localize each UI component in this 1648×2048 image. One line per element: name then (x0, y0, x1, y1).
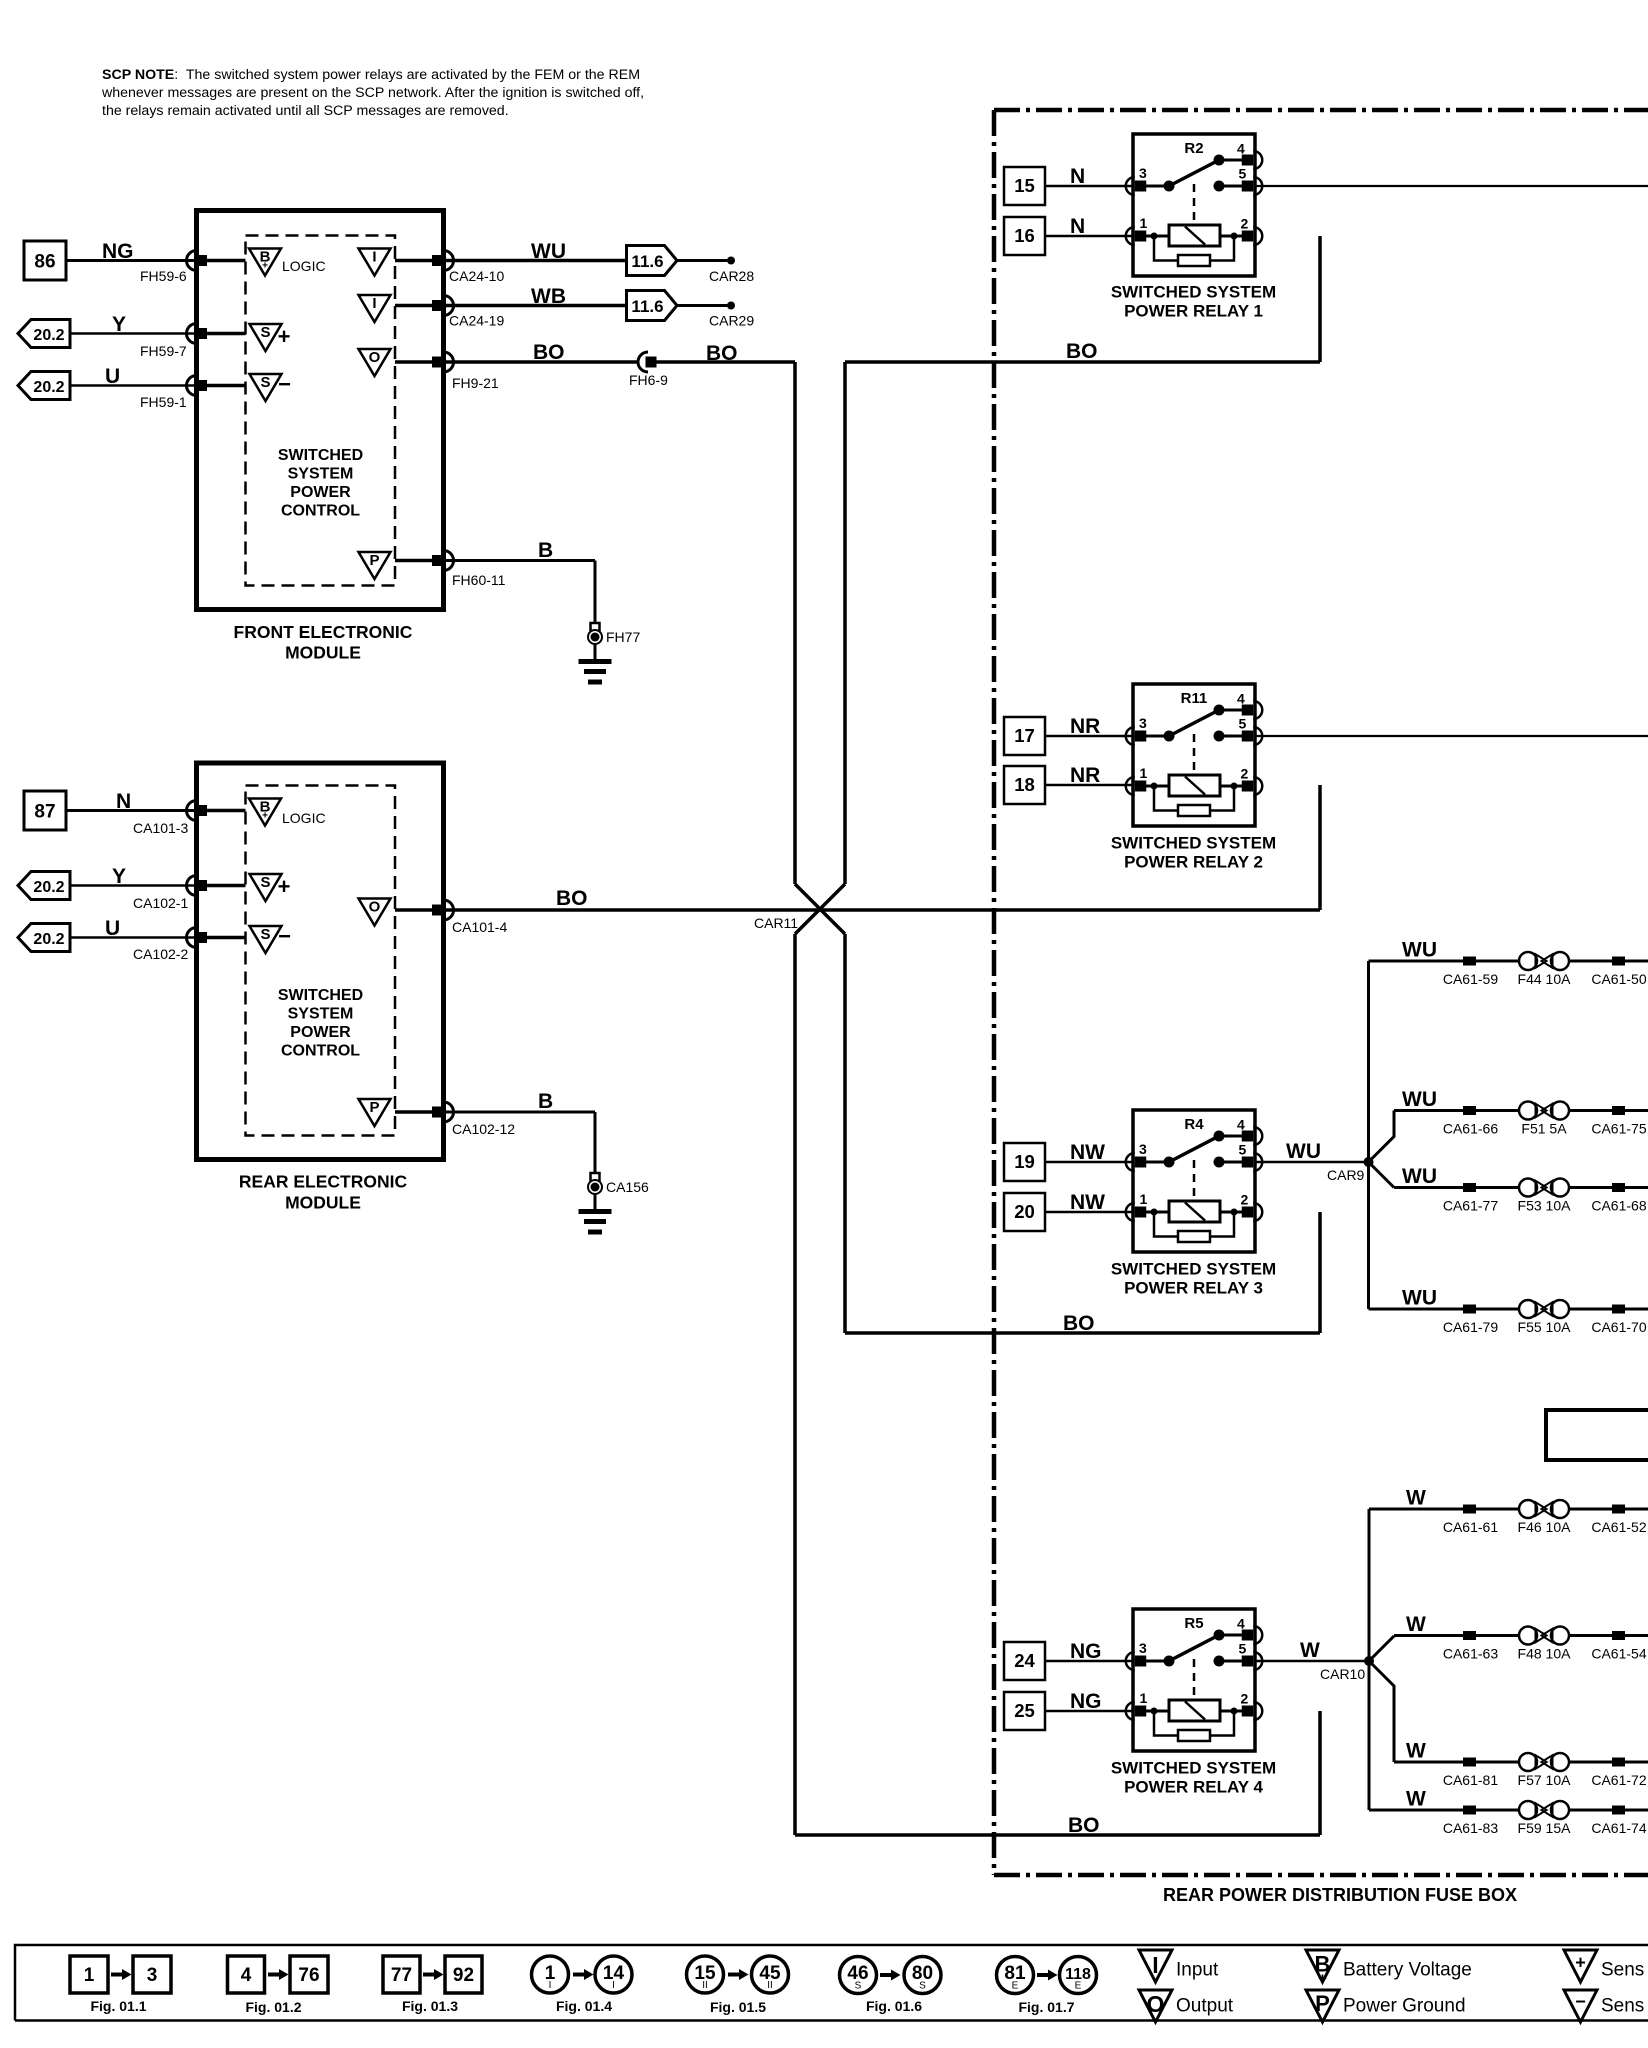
svg-text:CA61-54: CA61-54 (1591, 1646, 1646, 1662)
svg-text:N: N (116, 790, 131, 813)
svg-text:NR: NR (1070, 764, 1100, 787)
svg-text:P: P (369, 1099, 379, 1116)
wire NW 19 to relay3 pin3 (1045, 1141, 1133, 1164)
svg-text:BO: BO (706, 342, 738, 365)
svg-text:W: W (1406, 1613, 1426, 1636)
connector arrow 20.2 (U, REM) (18, 924, 70, 952)
wire BO from FH9-21 (444, 341, 639, 364)
svg-text:P: P (369, 552, 379, 569)
svg-text:NW: NW (1070, 1191, 1105, 1214)
svg-text:NG: NG (1070, 1690, 1102, 1713)
svg-text:CA61-70: CA61-70 (1591, 1319, 1646, 1335)
svg-text:POWER RELAY 2: POWER RELAY 2 (1124, 853, 1263, 872)
svg-text:16: 16 (1014, 225, 1035, 246)
svg-text:BO: BO (1063, 1312, 1095, 1335)
relay R4 SWITCHED SYSTEM POWER RELAY 3 (1111, 1110, 1276, 1298)
symbol sensor+ S triangle (REM) (250, 874, 291, 901)
svg-text:the relays remain activated un: the relays remain activated until all SC… (102, 103, 509, 119)
connector 11.6 (WB) (627, 291, 678, 321)
pin CA102-12 (REM right) (432, 1102, 515, 1137)
svg-text:CA102-12: CA102-12 (452, 1121, 515, 1137)
svg-text:F44 10A: F44 10A (1518, 971, 1572, 987)
svg-text:F46 10A: F46 10A (1518, 1519, 1572, 1535)
svg-text:REAR ELECTRONIC: REAR ELECTRONIC (239, 1172, 408, 1192)
svg-text:CONTROL: CONTROL (281, 503, 360, 520)
fuse F55 10A row (WU CA61-79/CA61-70) (1369, 1287, 1648, 1336)
fuse F53 10A row (WU CA61-77/CA61-68) (1394, 1165, 1648, 1214)
connector box 87 (24, 791, 66, 830)
pin FH59-6 (FEM left) (140, 251, 207, 285)
fuse F44 10A row (WU CA61-59/CA61-50) (1369, 939, 1648, 988)
svg-text:Fig. 01.7: Fig. 01.7 (1018, 1999, 1074, 2015)
legend item Fig. 01.7 (circles 81 to 118) (997, 1957, 1097, 2016)
svg-text:NR: NR (1070, 715, 1100, 738)
svg-text:II: II (702, 1980, 708, 1991)
connector arrow 20.2 (Y, REM) (18, 872, 70, 900)
svg-text:WU: WU (1402, 1088, 1437, 1111)
svg-text:Fig. 01.1: Fig. 01.1 (90, 1998, 146, 2014)
svg-text:+: + (262, 811, 268, 822)
svg-text:LOGIC: LOGIC (282, 258, 326, 274)
wire relay3 pin2 drop (1318, 1212, 1322, 1333)
wire WU from CA24-10 (444, 240, 628, 263)
pin CA24-10 (FEM right) (432, 251, 504, 285)
svg-text:WB: WB (531, 285, 566, 308)
fuse F48 10A row (W CA61-63/CA61-54) (1394, 1613, 1648, 1662)
legend symbol Battery Voltage (1306, 1950, 1472, 1987)
svg-text:CA101-3: CA101-3 (133, 820, 188, 836)
svg-text:CA61-79: CA61-79 (1443, 1319, 1498, 1335)
svg-text:Input: Input (1176, 1960, 1219, 1981)
svg-text:CA24-19: CA24-19 (449, 313, 504, 329)
symbol power-ground P triangle (FEM) (359, 552, 391, 579)
module U2 REAR ELECTRONIC MODULE (197, 763, 444, 1213)
svg-text:O: O (1147, 1991, 1165, 2017)
wire B from CA102-12 to ground (444, 1090, 596, 1173)
svg-text:1: 1 (84, 1965, 95, 1986)
node CAR29 (709, 302, 754, 329)
svg-text:+: + (262, 261, 268, 272)
svg-text:CA156: CA156 (606, 1179, 649, 1195)
wire BO vertical down to relay 4 feed (795, 934, 1320, 1837)
wire WU relay3 pin5 to CAR9 (1255, 1140, 1369, 1163)
svg-text:I: I (549, 1980, 552, 1991)
wire relay1 pin5 output to page edge (1255, 185, 1648, 187)
wire to CAR28 (677, 259, 731, 262)
legend item Fig. 01.5 (circles 15 to 45) (687, 1956, 789, 2015)
svg-text:FH59-1: FH59-1 (140, 394, 187, 410)
svg-text:SWITCHED SYSTEM: SWITCHED SYSTEM (1111, 1260, 1276, 1279)
svg-text:CA61-63: CA61-63 (1443, 1646, 1498, 1662)
svg-text:POWER RELAY 4: POWER RELAY 4 (1124, 1778, 1263, 1797)
wire NR 18 to relay2 pin1 (1045, 764, 1133, 787)
svg-text:−: − (1575, 1992, 1586, 2012)
legend symbol Power Ground (1306, 1990, 1466, 2022)
pin FH9-21 (FEM right) (432, 352, 499, 391)
pin CA24-19 (FEM right) (432, 296, 504, 329)
connector box 86 (24, 241, 66, 280)
svg-text:SWITCHED: SWITCHED (278, 447, 363, 464)
legend item Fig. 01.1 (squares 1 to 3) (70, 1956, 171, 2014)
svg-text:18: 18 (1014, 774, 1035, 795)
svg-text:−: − (278, 924, 291, 949)
node CAR11 crossover (754, 884, 845, 934)
svg-text:U: U (105, 365, 120, 388)
wire WB from CA24-19 (444, 285, 628, 308)
svg-text:FH59-7: FH59-7 (140, 343, 187, 359)
svg-text:CA61-81: CA61-81 (1443, 1772, 1498, 1788)
wire B from FH60-11 to ground (444, 539, 596, 623)
pin CA101-3 (REM left) (133, 801, 207, 837)
svg-text:I: I (372, 249, 376, 266)
svg-text:F53 10A: F53 10A (1518, 1198, 1572, 1214)
svg-text:CONTROL: CONTROL (281, 1043, 360, 1060)
svg-text:SWITCHED SYSTEM: SWITCHED SYSTEM (1111, 834, 1276, 853)
wire BO vertical from relay1 corner (843, 362, 847, 884)
svg-text:Y: Y (112, 865, 126, 888)
wire Y to REM (70, 865, 197, 888)
wire NG 24 to relay4 pin3 (1045, 1640, 1133, 1663)
svg-text:O: O (369, 899, 381, 916)
svg-text:SWITCHED SYSTEM: SWITCHED SYSTEM (1111, 1759, 1276, 1778)
relay R5 SWITCHED SYSTEM POWER RELAY 4 (1111, 1609, 1276, 1797)
connector box 16 (1004, 217, 1045, 255)
svg-text:CAR28: CAR28 (709, 268, 754, 284)
svg-text:S: S (260, 324, 270, 341)
svg-text:I: I (1152, 1952, 1158, 1978)
symbol battery-voltage B triangle (FEM) (249, 249, 326, 276)
svg-text:CA61-50: CA61-50 (1591, 971, 1646, 987)
svg-text:R4: R4 (1184, 1116, 1204, 1133)
svg-text:S: S (855, 1981, 862, 1992)
svg-text:Fig. 01.2: Fig. 01.2 (245, 1999, 301, 2015)
legend symbol Input (1139, 1950, 1219, 1982)
wire to CAR29 (677, 304, 731, 307)
svg-text:20: 20 (1014, 1201, 1035, 1222)
svg-text:WU: WU (1286, 1140, 1321, 1163)
svg-text:NW: NW (1070, 1141, 1105, 1164)
wire BO relay1 feed horizontal (845, 340, 1320, 363)
svg-text:CA61-74: CA61-74 (1591, 1820, 1646, 1836)
wire BO vertical from FEM corner (793, 362, 797, 884)
svg-text:Fig. 01.3: Fig. 01.3 (402, 1998, 458, 2014)
svg-text:S: S (260, 874, 270, 891)
symbol output O triangle (FEM) (359, 349, 391, 376)
svg-text:19: 19 (1014, 1151, 1035, 1172)
svg-text:LOGIC: LOGIC (282, 810, 326, 826)
wire BO from FH6-9 to corner (657, 342, 796, 365)
svg-text:N: N (1070, 165, 1085, 188)
svg-text:CA61-61: CA61-61 (1443, 1519, 1498, 1535)
svg-text:BO: BO (533, 341, 565, 364)
svg-text:CA61-77: CA61-77 (1443, 1198, 1498, 1214)
symbol output O triangle (REM) (359, 899, 391, 926)
wire NR 17 to relay2 pin3 (1045, 715, 1133, 738)
legend symbol Output (1139, 1990, 1234, 2022)
connector box 17 (1004, 717, 1045, 755)
svg-text:87: 87 (34, 802, 55, 823)
legend panel (15, 1945, 1648, 2021)
svg-text:CA61-83: CA61-83 (1443, 1820, 1498, 1836)
module U1 FRONT ELECTRONIC MODULE (197, 211, 444, 663)
svg-text:POWER RELAY 3: POWER RELAY 3 (1124, 1279, 1263, 1298)
svg-text:CA101-4: CA101-4 (452, 919, 507, 935)
wire N from 87 to REM (66, 790, 197, 813)
svg-text:CAR10: CAR10 (1320, 1666, 1365, 1682)
SCP note text (101, 67, 644, 119)
svg-text:SWITCHED: SWITCHED (278, 987, 363, 1004)
svg-text:CA61-68: CA61-68 (1591, 1198, 1646, 1214)
legend symbol Sensor - (1564, 1990, 1644, 2022)
symbol input I triangle 1 (FEM) (359, 249, 391, 276)
svg-text:FH6-9: FH6-9 (629, 372, 668, 388)
svg-text:P: P (1315, 1991, 1330, 2016)
svg-text:B: B (538, 1090, 553, 1113)
svg-text:Fig. 01.4: Fig. 01.4 (556, 1998, 612, 2014)
symbol sensor- S triangle (REM) (250, 924, 291, 954)
svg-text:3: 3 (147, 1965, 158, 1986)
svg-text:S: S (260, 374, 270, 391)
symbol sensor+ S triangle (FEM) (250, 324, 291, 351)
svg-text:N: N (1070, 215, 1085, 238)
svg-text:Fig. 01.5: Fig. 01.5 (710, 1999, 766, 2015)
connector arrow 20.2 (Y, FEM) (18, 320, 70, 348)
relay R2 SWITCHED SYSTEM POWER RELAY 1 (1111, 134, 1276, 321)
svg-text:FH77: FH77 (606, 629, 640, 645)
svg-text:CA24-10: CA24-10 (449, 268, 504, 284)
svg-text:FH59-6: FH59-6 (140, 268, 187, 284)
svg-text:NG: NG (102, 240, 134, 263)
wire Y to FEM (70, 313, 197, 336)
connector box 19 (1004, 1143, 1045, 1181)
svg-text:77: 77 (391, 1965, 412, 1986)
wire stubs REM pins to logic box (207, 811, 434, 1113)
svg-text:WU: WU (1402, 1287, 1437, 1310)
svg-text:R5: R5 (1184, 1615, 1203, 1632)
svg-text:CAR9: CAR9 (1327, 1167, 1365, 1183)
svg-text:S: S (919, 1981, 926, 1992)
fuse F46 10A row (W CA61-61/CA61-52) (1369, 1487, 1648, 1536)
fuse F57 10A row (W CA61-81/CA61-72) (1394, 1740, 1648, 1789)
svg-text:4: 4 (241, 1965, 252, 1986)
relay R11 SWITCHED SYSTEM POWER RELAY 2 (1111, 684, 1276, 872)
svg-text:SYSTEM: SYSTEM (288, 1006, 354, 1023)
svg-text:W: W (1406, 1788, 1426, 1811)
svg-text:SCP NOTE: The switched system: SCP NOTE: The switched system power rela… (102, 67, 640, 83)
wire BO vertical down to relay 3 feed (845, 934, 1320, 1335)
svg-text:FH60-11: FH60-11 (452, 572, 506, 588)
node CAR10 (1320, 1656, 1374, 1682)
svg-text:R2: R2 (1184, 140, 1203, 157)
wire CAR9 vertical bus (1367, 961, 1370, 1309)
pin FH59-1 (FEM left) (140, 376, 207, 411)
svg-text:MODULE: MODULE (285, 643, 361, 663)
svg-text:I: I (372, 295, 376, 312)
svg-text:W: W (1406, 1740, 1426, 1763)
svg-text:15: 15 (1014, 175, 1035, 196)
svg-text:REAR POWER DISTRIBUTION FUSE B: REAR POWER DISTRIBUTION FUSE BOX (1163, 1885, 1517, 1905)
svg-text:CAR11: CAR11 (754, 915, 798, 931)
svg-text:Y: Y (112, 313, 126, 336)
wire NG from 86 to FEM (66, 240, 197, 263)
connector FH6-9 inline (629, 352, 668, 388)
svg-text:76: 76 (298, 1965, 319, 1986)
svg-text:POWER: POWER (290, 484, 351, 501)
svg-text:CA61-52: CA61-52 (1591, 1519, 1646, 1535)
pin FH59-7 (FEM left) (140, 324, 207, 360)
svg-text:Fig. 01.6: Fig. 01.6 (866, 1998, 922, 2014)
svg-text:CA102-1: CA102-1 (133, 895, 188, 911)
svg-text:S: S (260, 926, 270, 943)
svg-text:FH9-21: FH9-21 (452, 375, 499, 391)
svg-text:CA61-66: CA61-66 (1443, 1121, 1498, 1137)
wire relay2 pin2 drop (1318, 785, 1322, 910)
pin CA102-2 (REM left) (133, 928, 207, 963)
svg-text:O: O (369, 349, 381, 366)
svg-text:SWITCHED SYSTEM: SWITCHED SYSTEM (1111, 283, 1276, 302)
svg-text:F51 5A: F51 5A (1521, 1121, 1567, 1137)
svg-text:CA102-2: CA102-2 (133, 946, 188, 962)
svg-text:Sens: Sens (1601, 1996, 1644, 2017)
wire CAR10 branch diagonals (1369, 1636, 1394, 1763)
svg-text:CA61-72: CA61-72 (1591, 1772, 1646, 1788)
svg-text:24: 24 (1014, 1650, 1035, 1671)
svg-text:Output: Output (1176, 1996, 1234, 2017)
wire relay1 pin2 drop (1318, 236, 1322, 362)
connector box 25 (1004, 1692, 1045, 1730)
svg-text:CA61-75: CA61-75 (1591, 1121, 1646, 1137)
svg-text:CA61-59: CA61-59 (1443, 971, 1498, 987)
svg-text:F48 10A: F48 10A (1518, 1646, 1572, 1662)
wire relay2 pin5 output to page edge (1255, 735, 1648, 737)
component box (off-page, right edge) (1546, 1410, 1648, 1460)
legend symbol Sensor + (1564, 1950, 1644, 1982)
symbol sensor- S triangle (FEM) (250, 372, 291, 402)
legend item Fig. 01.4 (circles 1 to 14) (532, 1956, 633, 2014)
svg-text:17: 17 (1014, 725, 1035, 746)
symbol input I triangle 2 (FEM) (359, 295, 391, 322)
svg-text:FRONT ELECTRONIC: FRONT ELECTRONIC (234, 622, 413, 642)
svg-text:I: I (612, 1980, 615, 1991)
legend item Fig. 01.3 (squares 77 to 92) (383, 1956, 482, 2014)
wire BO from CA101-4 to relay 2 (through CAR11) (444, 887, 1321, 910)
svg-text:POWER: POWER (290, 1024, 351, 1041)
REAR POWER DISTRIBUTION FUSE BOX dash-dot border (994, 110, 1648, 1905)
svg-text:−: − (278, 372, 291, 397)
svg-text:25: 25 (1014, 1700, 1035, 1721)
connector box 24 (1004, 1642, 1045, 1680)
svg-text:POWER RELAY 1: POWER RELAY 1 (1124, 302, 1263, 321)
svg-text:BO: BO (1068, 1814, 1100, 1837)
svg-text:+: + (278, 324, 291, 349)
connector arrow 20.2 (U, FEM) (18, 372, 70, 400)
fuse F51 5A row (WU CA61-66/CA61-75) (1394, 1088, 1648, 1137)
svg-text:WU: WU (531, 240, 566, 263)
wire N 16 to relay1 pin1 (1045, 215, 1133, 238)
wire relay4 pin2 drop (1318, 1711, 1322, 1835)
svg-text:MODULE: MODULE (285, 1193, 361, 1213)
wire NW 20 to relay3 pin1 (1045, 1191, 1133, 1214)
svg-text:F55 10A: F55 10A (1518, 1319, 1572, 1335)
svg-text:W: W (1406, 1487, 1426, 1510)
svg-text:WU: WU (1402, 939, 1437, 962)
fuse F59 15A row (W CA61-83/CA61-74) (1369, 1788, 1648, 1837)
svg-text:Battery Voltage: Battery Voltage (1343, 1960, 1472, 1981)
svg-text:R11: R11 (1181, 690, 1208, 707)
svg-text:BO: BO (556, 887, 588, 910)
wire NG 25 to relay4 pin1 (1045, 1690, 1133, 1713)
svg-text:F59 15A: F59 15A (1518, 1820, 1572, 1836)
connector box 20 (1004, 1193, 1045, 1231)
wire CAR9 branch diagonals (1369, 1111, 1395, 1188)
legend item Fig. 01.6 (circles 46 to 80) (840, 1957, 942, 2015)
svg-text:B: B (538, 539, 553, 562)
svg-text:+: + (278, 874, 291, 899)
pin FH60-11 (FEM right) (432, 551, 506, 589)
svg-text:+: + (1575, 1953, 1586, 1973)
svg-text:W: W (1300, 1639, 1320, 1662)
wire W relay4 pin5 to CAR10 (1255, 1639, 1369, 1662)
wire N 15 to relay1 pin3 (1045, 165, 1133, 188)
pin CA101-4 (REM right) (432, 900, 507, 935)
connector box 18 (1004, 766, 1045, 804)
svg-text:F57 10A: F57 10A (1518, 1772, 1572, 1788)
node CAR28 (709, 257, 754, 285)
svg-text:NG: NG (1070, 1640, 1102, 1663)
node CAR9 (1327, 1157, 1374, 1183)
wire U to FEM (70, 365, 197, 388)
svg-text:II: II (767, 1980, 773, 1991)
wire stubs FEM pins to logic box (207, 261, 434, 561)
svg-text:E: E (1012, 1981, 1019, 1992)
svg-text:U: U (105, 917, 120, 940)
svg-text:92: 92 (453, 1965, 474, 1986)
pin CA102-1 (REM left) (133, 876, 207, 912)
svg-text:BO: BO (1066, 340, 1098, 363)
connector 11.6 (WU) (627, 246, 678, 276)
svg-text:86: 86 (34, 252, 55, 273)
ground FH77 (579, 623, 641, 682)
symbol battery-voltage B triangle (REM) (249, 799, 326, 827)
svg-text:WU: WU (1402, 1165, 1437, 1188)
svg-text:+: + (1318, 1970, 1327, 1987)
wire CAR10 vertical bus (1368, 1509, 1371, 1810)
svg-text:SYSTEM: SYSTEM (288, 466, 354, 483)
symbol power-ground P triangle (REM) (359, 1099, 391, 1126)
connector box 15 (1004, 167, 1045, 205)
svg-text:E: E (1075, 1981, 1082, 1992)
svg-text:whenever messages are present: whenever messages are present on the SCP… (101, 85, 644, 101)
legend item Fig. 01.2 (squares 4 to 76) (228, 1956, 329, 2015)
wire U to REM (70, 917, 197, 940)
svg-text:CAR29: CAR29 (709, 313, 754, 329)
svg-text:Sens: Sens (1601, 1960, 1644, 1981)
ground CA156 (579, 1173, 650, 1232)
svg-text:Power Ground: Power Ground (1343, 1996, 1466, 2017)
